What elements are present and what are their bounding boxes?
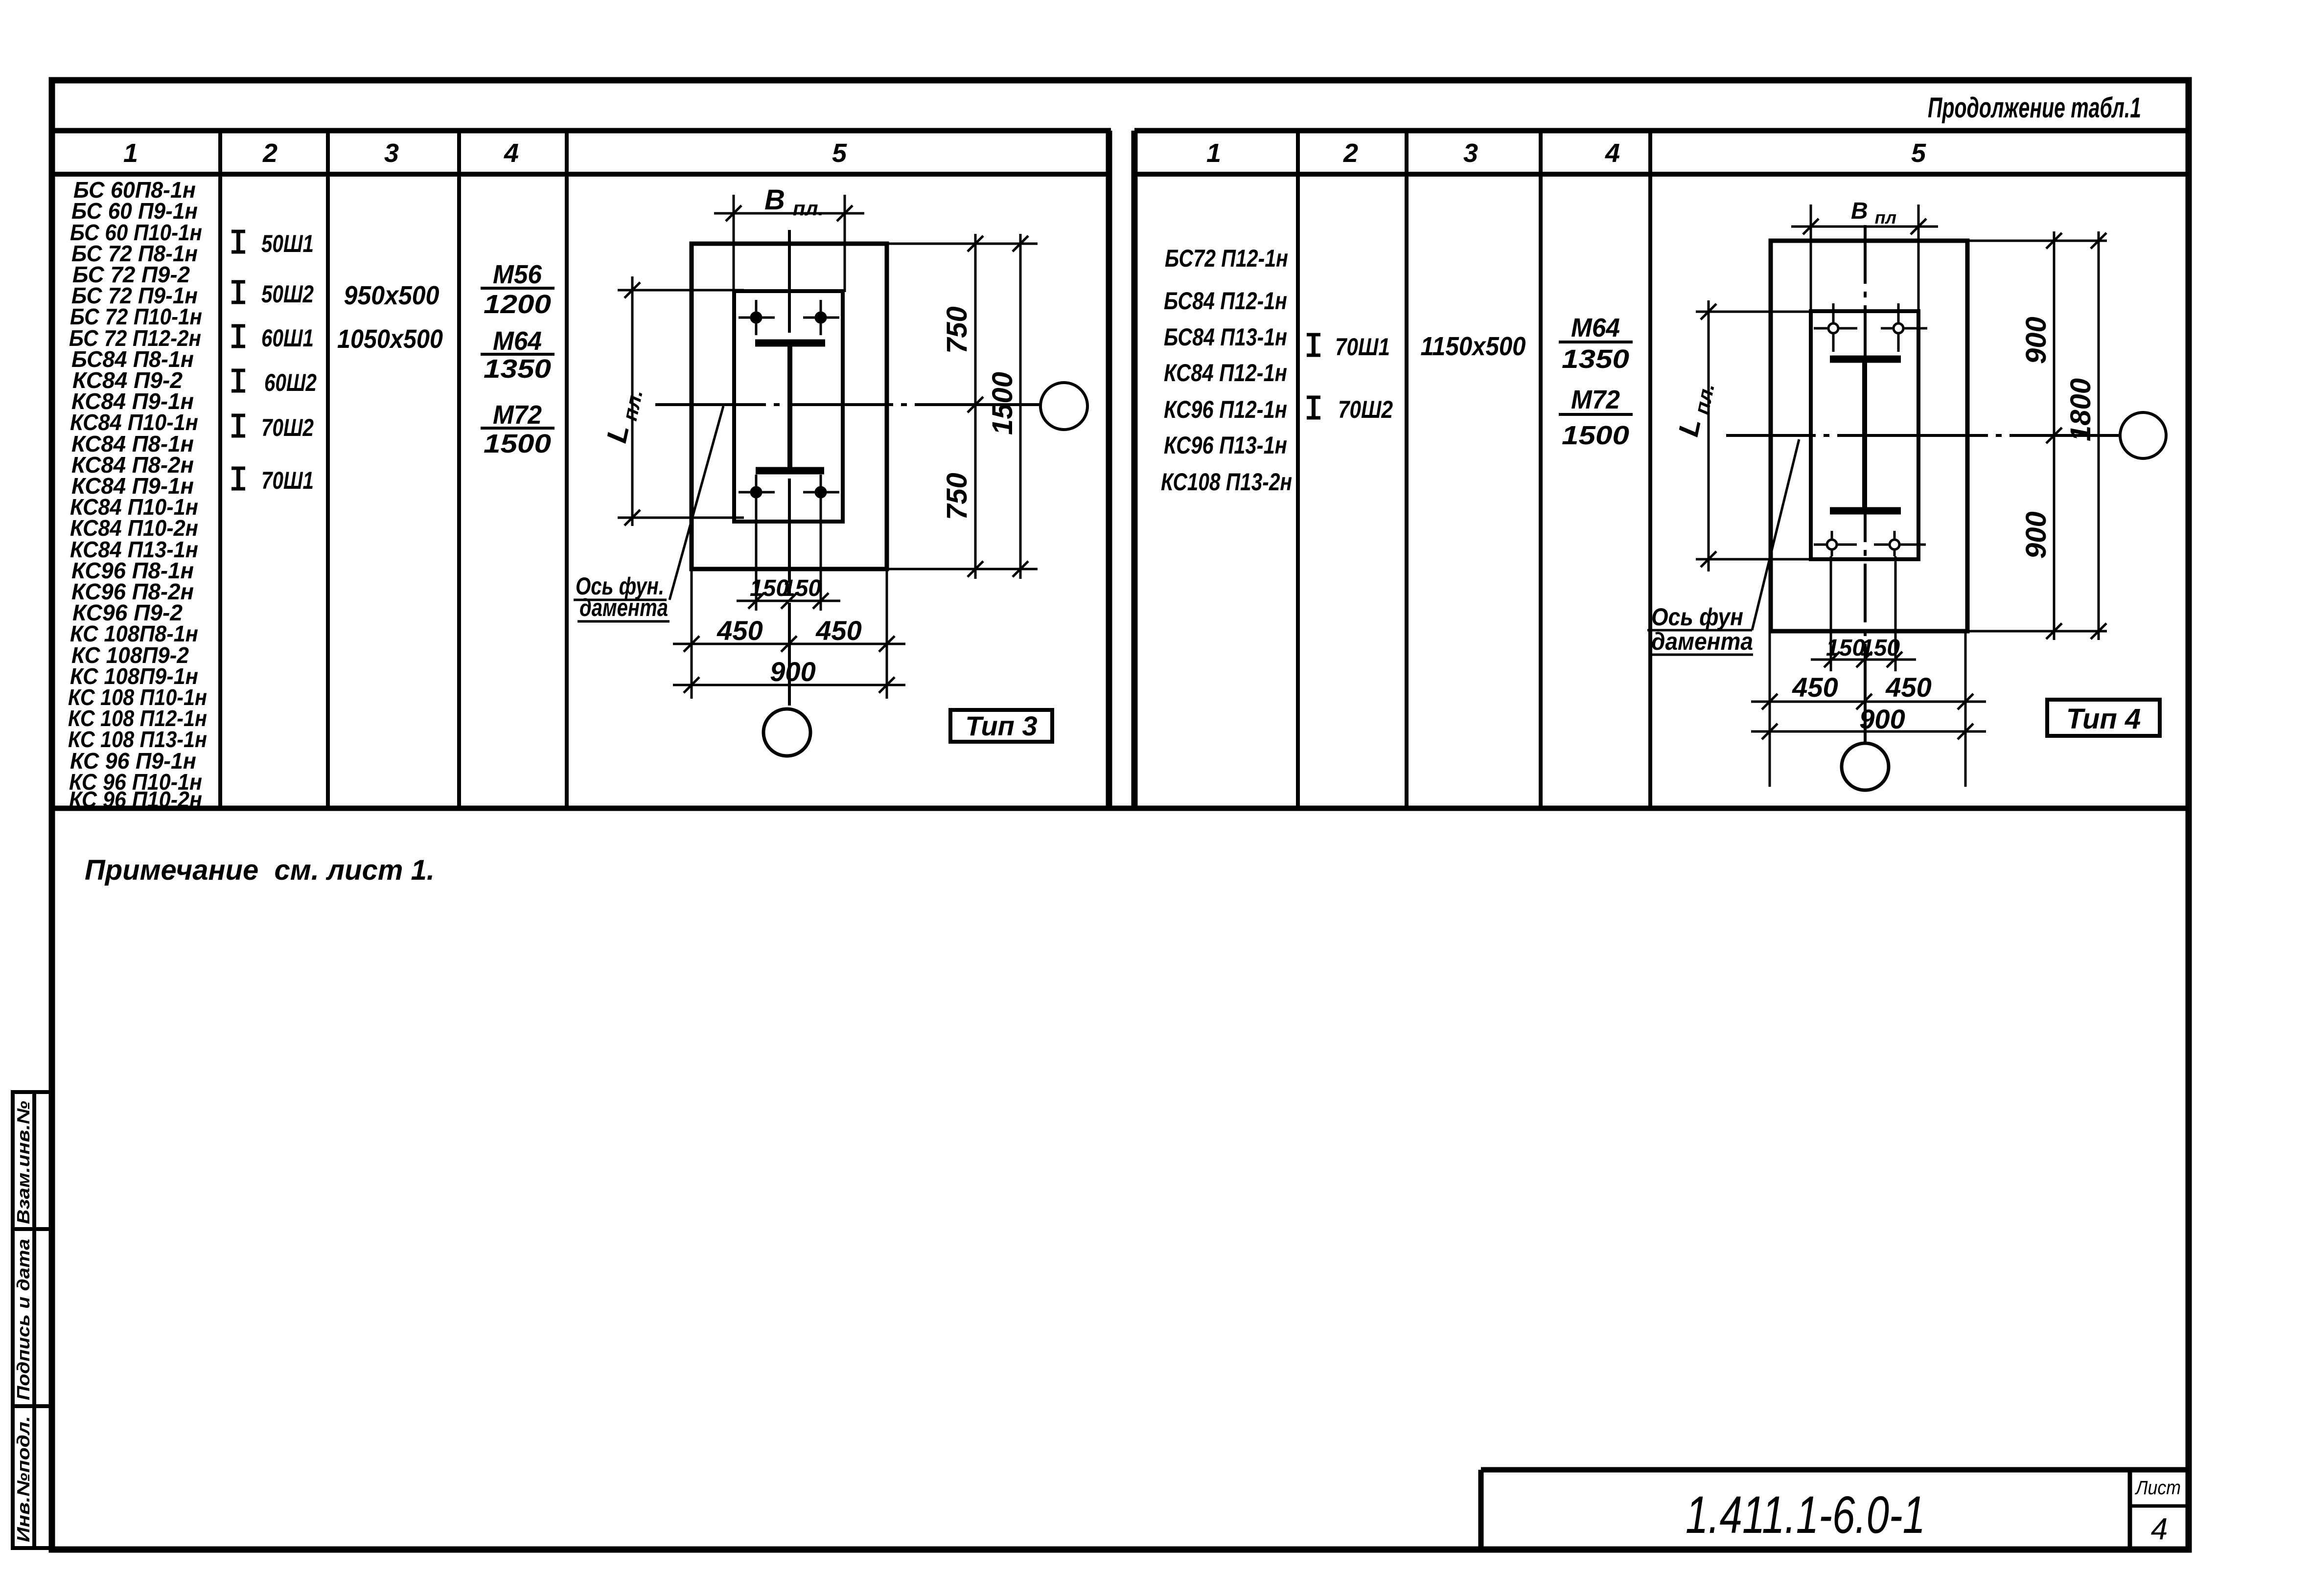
title block left edge	[1478, 1470, 1484, 1548]
svg-text:1: 1	[1206, 138, 1221, 168]
stamp box divider 2	[11, 1404, 54, 1408]
svg-text:Тип 4: Тип 4	[2066, 703, 2141, 735]
svg-text:1150x500: 1150x500	[1421, 332, 1526, 361]
svg-text:дамента: дамента	[579, 594, 668, 621]
right table column line 2|3	[1405, 131, 1409, 808]
T4 dimension 450 450	[1751, 694, 1986, 709]
title block list cell edge	[2128, 1470, 2132, 1548]
T3 top right bolt	[803, 300, 839, 335]
left table top line	[55, 128, 1111, 134]
T3 bottom left bolt	[739, 475, 775, 510]
section divider line	[52, 806, 2189, 811]
svg-text:Продолжение табл.1: Продолжение табл.1	[1928, 92, 2141, 124]
right table column line 4|5	[1648, 131, 1652, 808]
svg-text:150: 150	[782, 575, 821, 601]
fraction bar M64/1350 right	[1559, 341, 1633, 343]
svg-text:М56: М56	[493, 260, 542, 289]
svg-text:900: 900	[1859, 704, 1905, 734]
svg-text:70Ш2: 70Ш2	[261, 414, 314, 441]
T3 horizontal axis line	[655, 403, 1041, 406]
stamp box divider 1	[11, 1227, 54, 1231]
svg-text:900: 900	[2020, 317, 2052, 364]
T3 slab outline	[692, 244, 887, 569]
svg-text:900: 900	[2020, 511, 2052, 559]
left table header underline	[55, 172, 1111, 177]
T4 anchor plate outline	[1811, 311, 1918, 559]
svg-text:Тип 3: Тип 3	[965, 710, 1037, 741]
T4 type box	[2047, 700, 2160, 736]
T4 axis label underline 1	[1647, 629, 1752, 632]
T4 dimension 900 900 line	[2046, 231, 2062, 640]
svg-text:900: 900	[770, 656, 815, 687]
svg-text:КС96 П12-1н: КС96 П12-1н	[1164, 396, 1287, 423]
svg-text:5: 5	[1911, 138, 1926, 168]
T3 top left bolt	[739, 300, 775, 335]
left table column 3 sizes	[337, 281, 443, 354]
right table header numbers	[1206, 138, 1926, 168]
svg-text:1: 1	[123, 138, 138, 168]
T3 axis circle right	[1040, 383, 1087, 430]
svg-text:Lпл.: Lпл.	[601, 385, 647, 447]
T3 beam top flange	[755, 340, 825, 347]
left table column 4 bolt fractions	[484, 260, 551, 458]
svg-text:М64: М64	[1571, 313, 1620, 342]
svg-text:50Ш2: 50Ш2	[261, 280, 314, 308]
svg-text:70Ш2: 70Ш2	[1338, 396, 1393, 423]
svg-text:КС84 П12-1н: КС84 П12-1н	[1164, 359, 1287, 387]
right table column 2 beam list	[1307, 333, 1393, 423]
svg-text:4: 4	[504, 138, 519, 168]
T4 dimension 1800 line	[2091, 231, 2106, 640]
stamp box top	[11, 1090, 54, 1094]
svg-text:БС84 П13-1н: БС84 П13-1н	[1164, 323, 1287, 351]
T3 right extension top	[888, 243, 1038, 245]
stamp box bottom	[11, 1546, 54, 1550]
svg-text:БС84 П12-1н: БС84 П12-1н	[1164, 287, 1287, 315]
right table column line 3|4	[1539, 131, 1543, 808]
T4 dimension L pl	[1696, 300, 1811, 571]
T3 axis label underline 1	[574, 599, 667, 601]
svg-text:1800: 1800	[2065, 378, 2097, 441]
svg-text:450: 450	[1792, 672, 1838, 703]
svg-text:1200: 1200	[484, 290, 551, 319]
svg-text:М72: М72	[493, 400, 542, 430]
T3 type box	[950, 710, 1052, 742]
svg-text:3: 3	[384, 138, 399, 168]
svg-text:5: 5	[832, 138, 847, 168]
T3 dimension B pl	[714, 195, 864, 292]
T4 dimension 150 150	[1811, 652, 1916, 667]
T3 dimension 1500 line	[1013, 234, 1028, 579]
svg-text:Инв.№подл.: Инв.№подл.	[13, 1416, 33, 1542]
T3 vertical centerline	[788, 230, 791, 709]
svg-text:КС 96 П10-2н: КС 96 П10-2н	[69, 787, 202, 812]
svg-text:БС72 П12-1н: БС72 П12-1н	[1165, 245, 1288, 272]
svg-text:Впл: Впл	[1851, 198, 1896, 228]
svg-text:450: 450	[716, 615, 762, 646]
svg-text:450: 450	[815, 615, 861, 646]
right table header underline	[1134, 172, 2189, 177]
svg-text:1350: 1350	[484, 354, 551, 384]
title block top line	[1481, 1467, 2189, 1473]
T3 beam bottom flange	[756, 467, 824, 475]
svg-text:4: 4	[2151, 1512, 2168, 1546]
T3 450 extension lines	[692, 570, 887, 699]
T4 beam top flange	[1830, 356, 1901, 363]
T3 bolt extension lines bottom	[756, 504, 821, 611]
svg-text:М72: М72	[1571, 385, 1620, 414]
svg-text:1500: 1500	[484, 429, 551, 458]
T4 dimension B pl	[1791, 205, 1938, 314]
left table column 1 list	[68, 177, 207, 812]
T4 bolt extension lines bottom	[1831, 556, 1895, 671]
left table column line 4|5	[565, 131, 569, 808]
T4 slab outline	[1771, 241, 1967, 631]
svg-text:Лист: Лист	[2134, 1477, 2181, 1499]
left table column 2 beam list	[231, 230, 317, 494]
stamp column divider line	[32, 1092, 36, 1548]
T4 axis circle bottom	[1842, 743, 1889, 790]
svg-text:Примечание см. лист 1.: Примечание см. лист 1.	[85, 854, 435, 886]
T4 right extension top	[1969, 240, 2107, 242]
right table left edge	[1132, 131, 1138, 808]
svg-text:450: 450	[1885, 672, 1931, 703]
svg-text:Lпл.: Lпл.	[1672, 379, 1719, 440]
T3 dimension 150 150	[737, 593, 840, 609]
svg-text:4: 4	[1605, 138, 1620, 168]
svg-text:70Ш1: 70Ш1	[1335, 333, 1390, 361]
T3 anchor plate outline	[734, 291, 843, 522]
fraction bar M72/1500	[481, 427, 554, 430]
svg-text:1500: 1500	[987, 372, 1018, 435]
svg-text:1050x500: 1050x500	[337, 324, 443, 354]
svg-text:750: 750	[941, 473, 973, 520]
title block list cell divider	[2130, 1505, 2189, 1508]
svg-text:Ось фун: Ось фун	[1651, 603, 1743, 631]
T4 beam web	[1862, 360, 1867, 510]
T4 axis label underline 2	[1649, 654, 1753, 656]
left table column line 3|4	[457, 131, 461, 808]
T3 dimension 750 750 line	[968, 234, 983, 579]
T3 axis circle bottom	[763, 709, 810, 756]
svg-text:КС108 П13-2н: КС108 П13-2н	[1161, 468, 1292, 496]
left table header numbers	[123, 138, 847, 168]
right table column 4 bolt fractions	[1562, 313, 1629, 450]
svg-text:2: 2	[1343, 138, 1358, 168]
svg-text:60Ш2: 60Ш2	[264, 369, 317, 396]
svg-text:1500: 1500	[1562, 421, 1629, 450]
stamp column left line	[11, 1092, 15, 1548]
right table column 1 list	[1161, 245, 1292, 496]
T3 bottom right bolt	[803, 475, 839, 510]
left table column line 1|2	[218, 131, 222, 808]
T3 dimension 450 450	[673, 636, 905, 652]
left table right edge	[1106, 131, 1112, 808]
T4 horizontal axis line	[1726, 434, 2120, 437]
svg-text:дамента: дамента	[1651, 628, 1753, 655]
T3 leader line	[670, 406, 723, 600]
T4 axis circle right	[2120, 412, 2166, 458]
svg-text:2: 2	[262, 138, 277, 168]
fraction bar M72/1500 right	[1559, 413, 1633, 416]
T4 vertical centerline	[1864, 225, 1867, 743]
svg-text:1.411.1-6.0-1: 1.411.1-6.0-1	[1686, 1485, 1925, 1544]
svg-text:3: 3	[1463, 138, 1478, 168]
right table top line	[1134, 128, 2189, 134]
svg-text:750: 750	[941, 306, 973, 354]
T3 dimension 900	[673, 677, 905, 693]
svg-text:150: 150	[1861, 635, 1900, 661]
T3 axis label underline 2	[577, 620, 670, 623]
svg-text:Впл.: Впл.	[764, 184, 824, 220]
T4 dimension 900 bottom	[1751, 724, 1986, 739]
svg-text:60Ш1: 60Ш1	[261, 324, 314, 352]
right table column line 1|2	[1296, 131, 1300, 808]
T4 450 extension lines	[1770, 633, 1965, 787]
T4 leader line	[1752, 439, 1799, 630]
svg-text:Взам.инв.№: Взам.инв.№	[13, 1101, 33, 1224]
svg-text:Подпись и дата: Подпись и дата	[13, 1239, 33, 1400]
svg-text:150: 150	[1826, 635, 1865, 661]
T4 bottom left bolt	[1814, 531, 1857, 556]
T4 top left bolt	[1814, 303, 1857, 352]
T3 dimension L pl	[618, 276, 744, 526]
svg-text:50Ш1: 50Ш1	[261, 230, 314, 257]
svg-text:КС96 П13-1н: КС96 П13-1н	[1164, 432, 1287, 459]
svg-text:1350: 1350	[1562, 344, 1629, 374]
svg-text:М64: М64	[493, 326, 542, 356]
fraction bar M64/1350	[481, 353, 554, 356]
svg-text:950x500: 950x500	[344, 281, 439, 310]
T4 bottom right bolt	[1874, 531, 1926, 556]
T4 beam bottom flange	[1830, 507, 1901, 515]
T4 top right bolt	[1881, 303, 1927, 352]
left table column line 2|3	[326, 131, 330, 808]
T3 right extension bottom	[888, 568, 1038, 570]
fraction bar M56/1200	[481, 287, 554, 290]
svg-text:70Ш1: 70Ш1	[261, 467, 314, 494]
T3 beam web	[787, 344, 792, 469]
T4 right extension bottom	[1969, 630, 2107, 633]
